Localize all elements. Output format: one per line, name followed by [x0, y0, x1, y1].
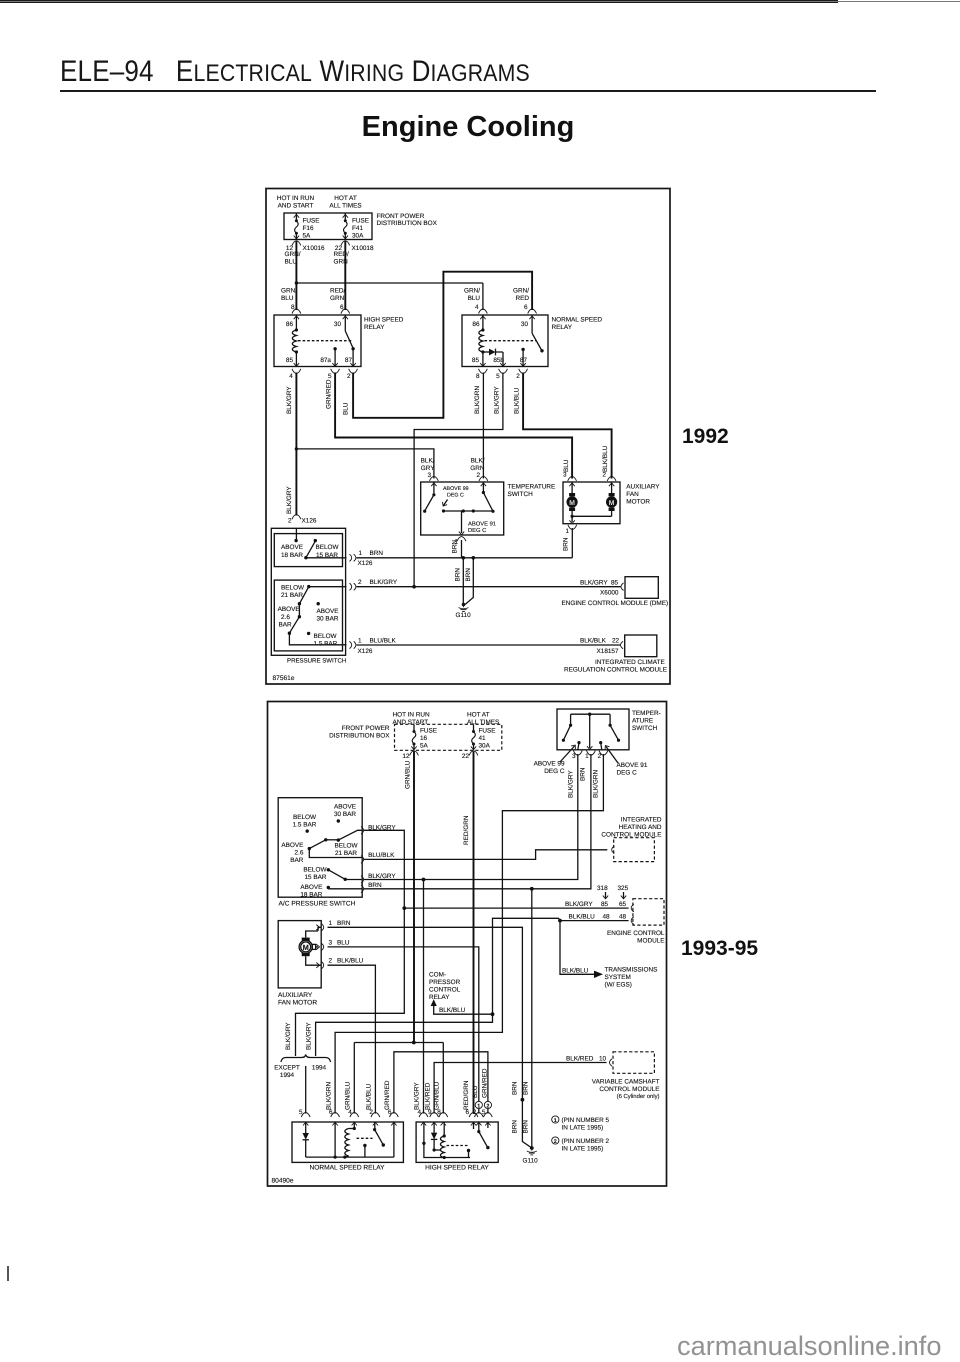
svg-text:BLK/GRY: BLK/GRY: [414, 1082, 421, 1110]
svg-text:GRN/: GRN/: [464, 287, 480, 294]
engine control module DME: [562, 577, 669, 607]
svg-text:22: 22: [462, 753, 470, 760]
fuse F41 30A: [343, 213, 369, 239]
relay K4 pin 4 leg: [422, 1122, 470, 1158]
svg-text:ATURE: ATURE: [632, 718, 653, 725]
wire BLK/BLU from relay K2 87 to auxiliary fan motor pin 2: [514, 373, 616, 487]
svg-text:VARIABLE CAMSHAFT: VARIABLE CAMSHAFT: [592, 1079, 660, 1086]
svg-text:ABOVE 91: ABOVE 91: [468, 520, 496, 527]
svg-text:FUSE: FUSE: [352, 218, 369, 225]
row BLK/GRY 85 65 to engine control module: [565, 901, 627, 908]
svg-text:85: 85: [611, 579, 619, 586]
svg-text:ENGINE CONTROL MODULE (DME): ENGINE CONTROL MODULE (DME): [562, 600, 669, 607]
svg-text:85: 85: [601, 901, 609, 908]
svg-text:6: 6: [524, 304, 528, 311]
svg-text:ABOVE 99: ABOVE 99: [443, 486, 469, 492]
page header ELE-94: [60, 55, 772, 89]
svg-text:2: 2: [476, 472, 480, 479]
svg-text:21 BAR: 21 BAR: [335, 850, 357, 857]
svg-text:NORMAL SPEED RELAY: NORMAL SPEED RELAY: [309, 1164, 385, 1171]
svg-text:BLK/GRY: BLK/GRY: [286, 486, 293, 514]
svg-text:85: 85: [286, 357, 294, 364]
svg-text:BLU: BLU: [472, 1085, 479, 1098]
svg-text:BLK/BLK: BLK/BLK: [580, 638, 607, 645]
front power distribution box F1: [284, 213, 438, 240]
wire BLU from relay K1 87 to relay K2 30 feed loop: [343, 272, 537, 418]
svg-text:ABOVE: ABOVE: [334, 804, 356, 811]
svg-text:BAR: BAR: [279, 621, 293, 628]
fuse 16 5A: [411, 724, 437, 750]
svg-text:BLU/BLK: BLU/BLK: [368, 852, 395, 859]
svg-text:BLK/GRY: BLK/GRY: [286, 386, 293, 414]
svg-text:87: 87: [345, 357, 353, 364]
motor M1b right armature: [606, 482, 617, 516]
pressure switch S2a 18/15 bar section: [274, 528, 346, 566]
label ABOVE 91 DEG C with pointer: [603, 744, 648, 776]
label compressor control relay: [429, 972, 461, 1002]
svg-text:18 BAR: 18 BAR: [281, 552, 303, 559]
junction node on GRN/BLU: [295, 281, 298, 284]
wire brace to normal speed relay pin 5: [299, 1066, 310, 1126]
connector X10018 pin 22: [335, 241, 374, 252]
svg-text:HOT AT: HOT AT: [334, 195, 357, 202]
svg-text:BLU: BLU: [468, 295, 481, 302]
svg-text:BLK/RED: BLK/RED: [566, 1056, 594, 1063]
wire RED/GRN from fuse 41 to high speed relay pin 6: [463, 752, 478, 1126]
svg-text:BLK/GRN: BLK/GRN: [474, 386, 481, 414]
svg-text:1: 1: [585, 753, 589, 760]
relay K3 actuating dash link: [357, 1137, 373, 1139]
relay K3 coil: [345, 1122, 356, 1157]
svg-text:INTEGRATED CLIMATE: INTEGRATED CLIMATE: [595, 659, 665, 666]
svg-text:BLK/BLU: BLK/BLU: [562, 967, 589, 974]
wire BLK/GRY from relay K2 85 to engine control module branch: [414, 373, 503, 587]
svg-text:41: 41: [479, 735, 487, 742]
svg-text:318: 318: [597, 885, 608, 892]
D1 border frame: [266, 189, 670, 685]
connector X10016 pin 12: [286, 241, 325, 252]
svg-text:2: 2: [516, 373, 520, 380]
svg-text:SWITCH: SWITCH: [508, 491, 534, 498]
wire GRN/BLU branch to normal speed relay 86: [296, 283, 487, 319]
svg-text:30A: 30A: [352, 232, 364, 239]
svg-text:1994: 1994: [312, 1065, 327, 1072]
svg-text:48: 48: [619, 913, 627, 920]
svg-text:325: 325: [618, 885, 629, 892]
svg-text:X18157: X18157: [597, 648, 619, 655]
svg-text:22: 22: [612, 638, 620, 645]
svg-text:BRN: BRN: [522, 1081, 529, 1095]
svg-text:IN LATE 1995): IN LATE 1995): [562, 1146, 604, 1153]
svg-text:GRN: GRN: [470, 465, 485, 472]
svg-text:16: 16: [420, 735, 428, 742]
wire GRN/RED from relay K1 87a to auxiliary fan motor pin 3: [325, 373, 576, 487]
D2 border frame: [268, 702, 667, 1187]
temperature switch S1: [421, 482, 556, 535]
svg-text:F41: F41: [352, 225, 363, 232]
pressure switch S2 housing: [271, 528, 346, 664]
svg-text:GRN: GRN: [334, 259, 349, 266]
auxiliary fan motor M2: [278, 921, 321, 1007]
wire BLU/BLK A/C to integrated heating module: [364, 850, 607, 860]
svg-text:BLK/: BLK/: [471, 458, 485, 465]
svg-text:ALL TIMES: ALL TIMES: [329, 203, 361, 210]
motor M2 internal wiring: [306, 925, 322, 968]
wire BLK/GRN temperature pin 2 to normal speed relay pin 6: [325, 754, 603, 1126]
svg-text:F16: F16: [303, 225, 314, 232]
DIAGRAM 1 : 1992 engine cooling schematic: [262, 184, 676, 688]
svg-text:5: 5: [496, 373, 500, 380]
svg-text:REGULATION CONTROL MODULE: REGULATION CONTROL MODULE: [564, 666, 667, 673]
node HOT IN RUN AND START 2: [393, 711, 431, 726]
node BLK/BLU junction: [558, 919, 562, 923]
svg-text:DEG C: DEG C: [544, 768, 565, 775]
wire BLK/BLU to transmissions system: [560, 921, 657, 989]
svg-text:DEG C: DEG C: [468, 527, 486, 534]
svg-text:BAR: BAR: [290, 857, 304, 864]
svg-text:BLK/GRY: BLK/GRY: [565, 901, 593, 908]
svg-text:BRN: BRN: [455, 568, 462, 582]
svg-text:IN LATE 1995): IN LATE 1995): [562, 1125, 604, 1132]
circled pin marker 2: [484, 1101, 491, 1109]
brace EXCEPT 1994: [274, 1055, 330, 1080]
svg-text:1: 1: [554, 1118, 557, 1124]
svg-text:TEMPERATURE: TEMPERATURE: [508, 484, 556, 491]
svg-text:2: 2: [473, 1109, 477, 1116]
node HOT AT ALL TIMES: [329, 195, 361, 210]
relay K2 suppression diode: [483, 349, 503, 367]
svg-text:BLU: BLU: [281, 295, 294, 302]
svg-text:1: 1: [359, 550, 363, 557]
svg-text:FAN: FAN: [626, 491, 639, 498]
wire GRN/BLU branches to relay pins 4 and 8: [345, 1043, 448, 1126]
svg-text:BLK/BLU: BLK/BLU: [602, 445, 609, 472]
motor M1a left armature: [567, 482, 578, 516]
svg-text:SYSTEM: SYSTEM: [605, 974, 631, 981]
svg-text:RELAY: RELAY: [552, 324, 573, 331]
relay K4 coil: [440, 1122, 445, 1159]
svg-text:30 BAR: 30 BAR: [317, 616, 339, 623]
svg-text:5A: 5A: [420, 742, 429, 749]
svg-text:G110: G110: [523, 1158, 539, 1165]
connector pin 22: [462, 751, 478, 760]
svg-text:BLK/RED: BLK/RED: [424, 1082, 431, 1110]
svg-text:BELOW: BELOW: [293, 814, 317, 821]
integrated climate regulation control module: [564, 635, 667, 673]
svg-text:HIGH SPEED: HIGH SPEED: [364, 317, 404, 324]
note pin number 5 in late 1995: [552, 1116, 610, 1132]
svg-text:BRN: BRN: [452, 540, 459, 554]
svg-text:EXCEPT: EXCEPT: [274, 1065, 300, 1072]
svg-text:RELAY: RELAY: [364, 324, 385, 331]
svg-text:M: M: [569, 500, 575, 507]
header rule: [60, 90, 876, 92]
temperature switch S3 pin exits: [568, 751, 608, 798]
svg-text:BLK/GRY: BLK/GRY: [568, 770, 575, 798]
svg-text:SWITCH: SWITCH: [632, 725, 658, 732]
svg-text:ABOVE: ABOVE: [281, 842, 303, 849]
svg-text:TEMPER-: TEMPER-: [632, 710, 661, 717]
node BRN junction a: [462, 556, 466, 560]
circled pin marker 1: [475, 1101, 482, 1109]
svg-text:FAN MOTOR: FAN MOTOR: [278, 1000, 317, 1007]
wire BLU fan port 3 to high speed relay pin 2: [328, 947, 484, 1126]
svg-text:21 BAR: 21 BAR: [281, 592, 303, 599]
svg-text:2: 2: [288, 517, 292, 524]
relay K4 actuating dash link: [447, 1145, 469, 1147]
relay K2 switch contacts: [521, 315, 543, 367]
wire BLK/GRY A/C top output to ECM row and except-1994 leg: [285, 830, 404, 1056]
title Engine Cooling: [0, 111, 936, 144]
svg-text:87a: 87a: [320, 357, 331, 364]
wire BLK/GRY 1994 riser: [305, 918, 560, 1056]
svg-text:PRESSOR: PRESSOR: [429, 979, 461, 986]
svg-text:BLK/GRY: BLK/GRY: [285, 1022, 292, 1050]
relay K1 high speed relay: [274, 315, 404, 367]
svg-text:AUXILIARY: AUXILIARY: [626, 484, 660, 491]
relay K4 switch: [467, 1122, 490, 1158]
svg-text:FUSE: FUSE: [479, 727, 496, 734]
svg-text:BLK/GRN: BLK/GRN: [325, 1082, 332, 1110]
svg-text:5: 5: [328, 373, 332, 380]
temperature switch S1 contacts: [423, 482, 495, 535]
node HOT AT ALL TIMES 2: [467, 711, 499, 726]
svg-text:ABOVE: ABOVE: [300, 884, 322, 891]
junction node BLK/GRY branch: [295, 447, 298, 450]
svg-text:BLK/GRN: BLK/GRN: [593, 770, 600, 798]
wire RED/GRN from fuse F41 to high speed relay 30: [330, 241, 350, 319]
left margin tick: [7, 1266, 9, 1281]
wire BRN temperature switch pin 1 drop: [452, 537, 466, 558]
A/C switch below 15 bar: [303, 867, 362, 882]
svg-text:30: 30: [334, 321, 342, 328]
ground G110: [456, 603, 472, 619]
temperature switch S3 contacts: [562, 713, 620, 750]
relay K3 normal speed relay: [292, 1122, 403, 1171]
motor M2 armature: [299, 938, 316, 957]
node BLK/GRY branch to high speed relay pin 4: [414, 878, 428, 1126]
svg-text:FUSE: FUSE: [303, 218, 320, 225]
svg-text:65: 65: [619, 901, 627, 908]
svg-text:X126: X126: [358, 648, 373, 655]
svg-text:NORMAL SPEED: NORMAL SPEED: [552, 317, 603, 324]
svg-text:2: 2: [554, 1139, 557, 1145]
wire GRN/BLU from fuse F16 to high speed relay 86: [281, 241, 301, 319]
A/C switch ladder above 2.6 below 21: [281, 830, 362, 864]
svg-text:5A: 5A: [303, 232, 312, 239]
svg-text:FRONT POWER: FRONT POWER: [342, 725, 390, 732]
pressure switch S2b 21/2.6/30/1.5 bar section: [274, 580, 346, 651]
relay K2 coil: [479, 315, 485, 367]
svg-text:3: 3: [572, 753, 576, 760]
svg-text:5: 5: [482, 1109, 486, 1116]
svg-text:RED/: RED/: [330, 287, 345, 294]
wire motor common to pin 1: [569, 515, 611, 524]
relay K2 actuating dash link: [485, 340, 537, 342]
svg-text:BLK/GRY: BLK/GRY: [305, 1022, 312, 1050]
svg-text:12: 12: [402, 753, 410, 760]
wire GRN/RED between relays: [384, 1052, 492, 1126]
svg-text:2: 2: [347, 373, 351, 380]
svg-text:4: 4: [289, 373, 293, 380]
relay K2 normal speed relay: [462, 315, 602, 367]
svg-text:2: 2: [486, 1103, 489, 1109]
svg-text:2: 2: [358, 579, 362, 586]
svg-text:ABOVE: ABOVE: [281, 544, 303, 551]
svg-text:DISTRIBUTION BOX: DISTRIBUTION BOX: [329, 733, 390, 740]
svg-text:BELOW: BELOW: [303, 867, 327, 874]
svg-text:FRONT POWER: FRONT POWER: [377, 213, 425, 220]
A/C switch above 18 bar: [300, 884, 362, 899]
wire BLK/RED high speed relay pin 9 to camshaft module: [424, 1056, 606, 1126]
svg-text:BRN: BRN: [368, 882, 382, 889]
svg-text:2: 2: [598, 753, 602, 760]
svg-text:GRN/RED: GRN/RED: [481, 1068, 488, 1098]
svg-text:HEATING AND: HEATING AND: [619, 824, 662, 831]
node BLK/GRY junction at ECM row: [412, 585, 416, 589]
svg-text:GRN/RED: GRN/RED: [325, 379, 332, 409]
relay K1 actuating dash link: [298, 340, 352, 342]
svg-text:3: 3: [329, 939, 333, 946]
row BLK/BLU 48 48 to engine control module: [560, 913, 629, 920]
svg-text:87561e: 87561e: [273, 675, 295, 682]
svg-text:(W/ EGS): (W/ EGS): [605, 982, 632, 989]
svg-text:15 BAR: 15 BAR: [304, 874, 326, 881]
svg-text:BELOW: BELOW: [334, 843, 358, 850]
svg-text:BLK/GRY: BLK/GRY: [368, 873, 396, 880]
svg-text:1994: 1994: [280, 1072, 295, 1079]
svg-text:1.5 BAR: 1.5 BAR: [293, 822, 317, 829]
svg-text:X6000: X6000: [600, 589, 619, 596]
svg-text:10: 10: [599, 1056, 607, 1063]
wire BLK/BLU to compressor control relay: [431, 999, 493, 1014]
svg-text:BLK/BLU: BLK/BLU: [337, 958, 364, 965]
fan motor output connectors: [321, 920, 364, 969]
svg-text:BLK/BLU: BLK/BLU: [366, 1083, 373, 1110]
svg-text:COM-: COM-: [429, 972, 446, 979]
svg-text:CONTROL: CONTROL: [429, 987, 461, 994]
temperature switch S3: [557, 709, 661, 750]
svg-text:INTEGRATED: INTEGRATED: [621, 817, 662, 824]
wire BLK/GRY from relay K1 85 to X126 and temperature switch 3: [286, 373, 296, 516]
svg-text:BLU: BLU: [343, 402, 350, 415]
svg-text:BLU/BLK: BLU/BLK: [370, 638, 397, 645]
svg-text:MODULE: MODULE: [637, 938, 664, 945]
relay K1 pin exits: [289, 363, 357, 380]
svg-text:BLU: BLU: [337, 939, 350, 946]
svg-text:ABOVE: ABOVE: [317, 608, 339, 615]
svg-text:8: 8: [476, 373, 480, 380]
DIAGRAM 2 : 1993-95 engine cooling schematic: [263, 696, 671, 1190]
svg-text:TRANSMISSIONS: TRANSMISSIONS: [605, 967, 658, 974]
wire GRN/BLU from fuse 16: [405, 752, 415, 1043]
node BLK/BLU compressor feed: [491, 1012, 495, 1016]
wire BLK/GRN from relay K2 85b to temperature switch pin 2: [470, 373, 500, 487]
node HOT IN RUN AND START: [277, 195, 315, 210]
svg-text:DISTRIBUTION BOX: DISTRIBUTION BOX: [377, 220, 438, 227]
svg-text:GRN/: GRN/: [513, 287, 529, 294]
svg-text:X126: X126: [302, 517, 317, 524]
relay K1 switch contacts: [333, 315, 354, 367]
svg-text:M: M: [609, 500, 615, 507]
top rule: [0, 0, 838, 3]
svg-text:BLK/: BLK/: [421, 458, 435, 465]
relay K3 bottom rail: [306, 1122, 394, 1159]
svg-text:GRN/: GRN/: [285, 251, 301, 258]
svg-text:CONTROL MODULE: CONTROL MODULE: [601, 832, 661, 839]
svg-text:2.6: 2.6: [295, 849, 304, 856]
svg-text:BELOW: BELOW: [315, 544, 339, 551]
svg-text:BELOW: BELOW: [314, 633, 338, 640]
svg-text:HIGH SPEED RELAY: HIGH SPEED RELAY: [425, 1164, 489, 1171]
svg-text:80490e: 80490e: [272, 1177, 294, 1184]
node GRN/BLU junction: [412, 1041, 416, 1045]
svg-text:FUSE: FUSE: [420, 727, 437, 734]
svg-text:(6 Cylinder only): (6 Cylinder only): [617, 1093, 660, 1100]
svg-text:BRN: BRN: [370, 550, 384, 557]
wire BLK/BLU fan port 2 to normal speed relay pin 2: [328, 965, 380, 1125]
relay K3 diode: [303, 1122, 309, 1157]
year label 1993-95: [681, 937, 758, 961]
svg-text:GRY: GRY: [421, 465, 435, 472]
svg-text:X10018: X10018: [352, 245, 374, 252]
integrated heating and control module: [601, 817, 662, 862]
svg-text:BLU: BLU: [285, 259, 298, 266]
front power distribution box F2 dashed: [329, 724, 502, 750]
svg-text:BLU: BLU: [563, 459, 570, 472]
svg-text:5: 5: [299, 1109, 303, 1116]
node BRN junction b: [472, 556, 476, 560]
connector pin 12: [402, 751, 418, 760]
svg-text:PRESSURE SWITCH: PRESSURE SWITCH: [287, 657, 346, 664]
A/C pressure switch S4: [278, 798, 362, 908]
svg-text:1.5 BAR: 1.5 BAR: [314, 640, 338, 647]
connector X126 pin 2 top: [288, 515, 317, 525]
wire BLK/GRY branch to temperature switch pin 3: [296, 449, 438, 486]
fuse 41 30A: [471, 724, 496, 750]
svg-text:GRN: GRN: [330, 295, 345, 302]
wire BRN from auxiliary fan motor pin 1: [563, 525, 577, 558]
svg-text:1: 1: [477, 1103, 480, 1109]
svg-text:DEG C: DEG C: [447, 493, 464, 499]
svg-text:HOT AT: HOT AT: [467, 711, 490, 718]
svg-text:BLK/BLU: BLK/BLU: [514, 387, 521, 414]
svg-text:RED: RED: [516, 295, 530, 302]
svg-text:GRN/BLU: GRN/BLU: [345, 1081, 352, 1110]
svg-text:MOTOR: MOTOR: [626, 499, 650, 506]
svg-text:G110: G110: [456, 612, 472, 619]
svg-text:BELOW: BELOW: [281, 585, 305, 592]
svg-text:2.6: 2.6: [281, 614, 290, 621]
relay K4 diode: [431, 1122, 441, 1152]
svg-text:1: 1: [329, 920, 333, 927]
fuse F16 5A: [294, 213, 320, 239]
svg-text:1: 1: [358, 638, 362, 645]
svg-text:85: 85: [472, 357, 480, 364]
svg-text:A/C PRESSURE SWITCH: A/C PRESSURE SWITCH: [279, 900, 356, 907]
wire BRN row pressure switch to fan motor and ground: [350, 550, 573, 567]
wire BRN fan port 1 to ground run: [328, 927, 532, 1148]
svg-text:BLK/BLU: BLK/BLU: [569, 913, 596, 920]
diagram 1 plate number: [273, 675, 295, 682]
watermark: [677, 1330, 941, 1362]
svg-text:2: 2: [329, 958, 333, 965]
relay K2 pin exits: [476, 363, 527, 380]
wire BRN drops to ground G110: [455, 558, 474, 605]
svg-text:ABOVE 91: ABOVE 91: [617, 762, 648, 769]
svg-text:4: 4: [475, 304, 479, 311]
labels 318 325 with arrows: [597, 885, 629, 899]
